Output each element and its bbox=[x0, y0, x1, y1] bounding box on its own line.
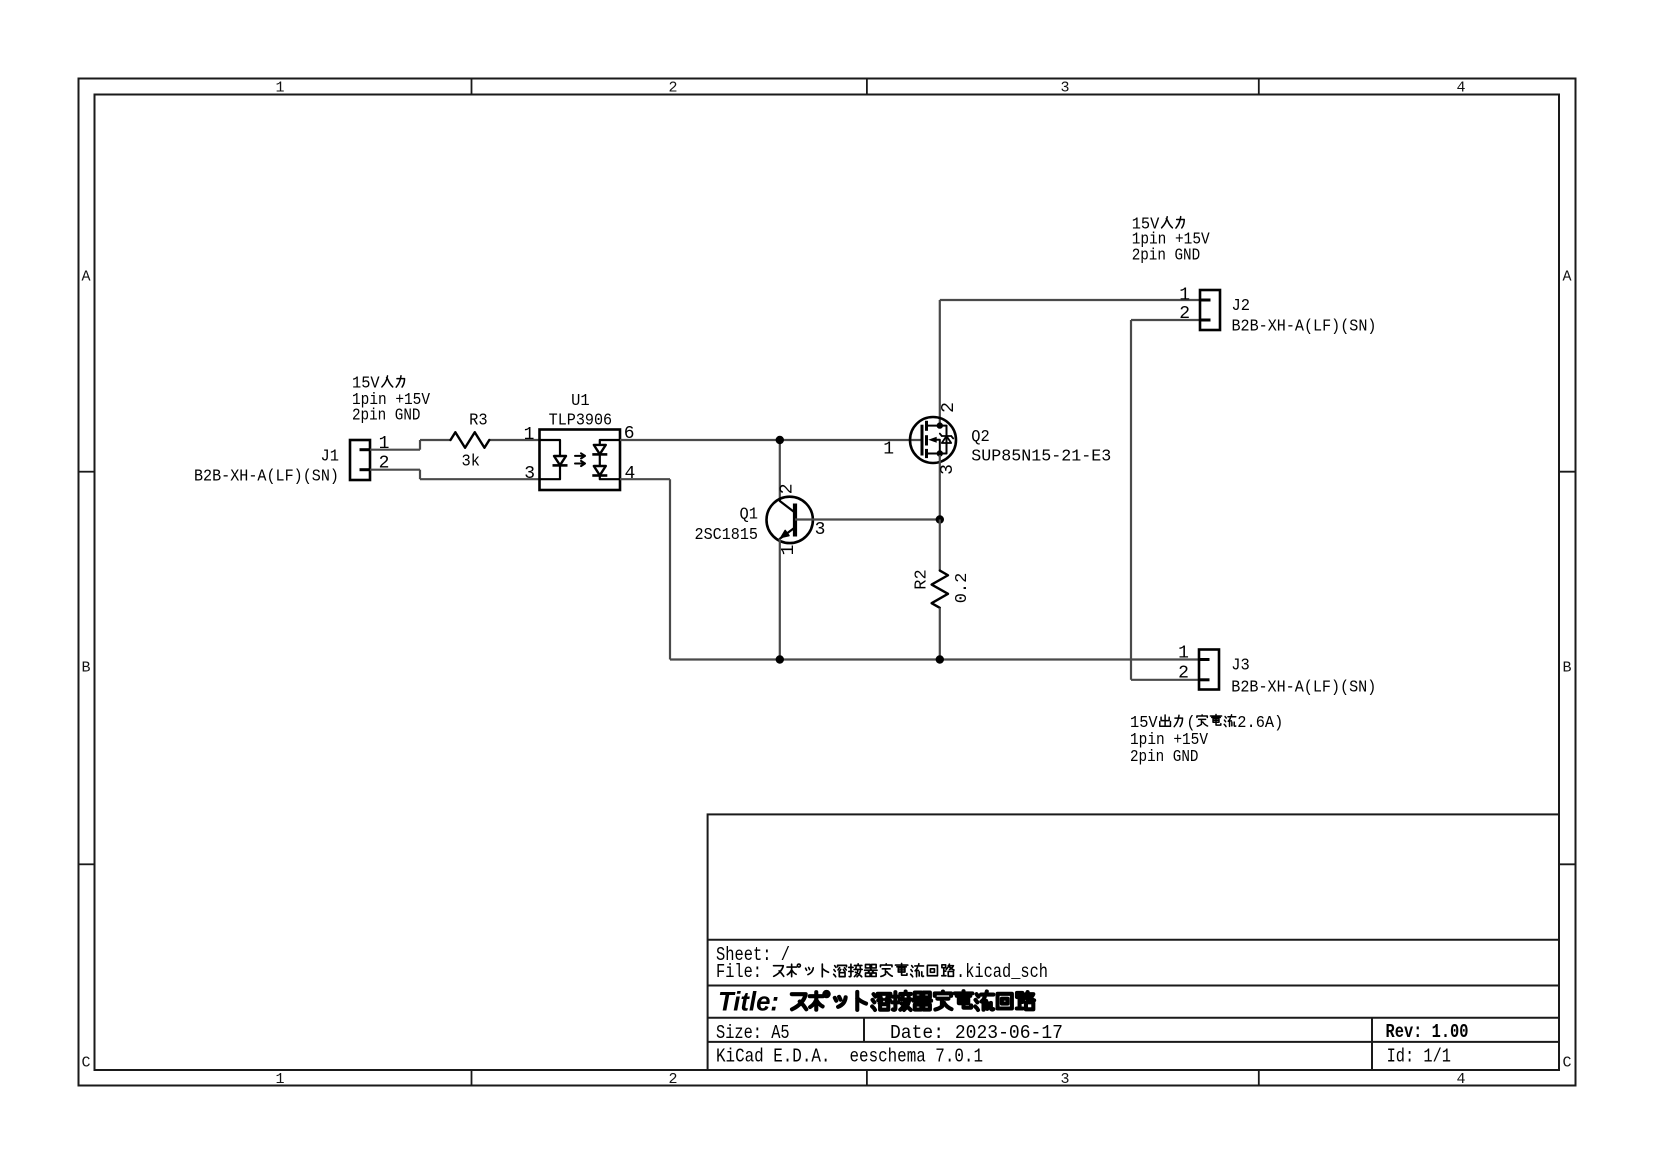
transistor Q1 bbox=[767, 497, 813, 543]
Q2 source connection + arrow bbox=[927, 453, 947, 455]
node junction R2 / bottom wire bbox=[936, 655, 944, 663]
J3 pin 2 stub bbox=[1199, 678, 1210, 681]
wire R2 to bottom bbox=[939, 608, 941, 660]
svg-text:0.2: 0.2 bbox=[953, 573, 972, 604]
svg-text:R2: R2 bbox=[913, 569, 932, 589]
svg-text:3: 3 bbox=[524, 464, 535, 484]
svg-text:4: 4 bbox=[1456, 1071, 1465, 1088]
J2 pin 1 stub bbox=[1200, 299, 1211, 302]
svg-text:C: C bbox=[1562, 1055, 1571, 1072]
svg-text:2pin GND: 2pin GND bbox=[1130, 748, 1199, 767]
frame column ticks top bbox=[471, 79, 473, 95]
wire Q2 source to node bbox=[939, 455, 941, 520]
Q2 channel dashes bbox=[925, 421, 928, 431]
frame row ticks right bbox=[1559, 471, 1576, 473]
svg-text:1: 1 bbox=[1178, 644, 1189, 664]
connector J1 bbox=[350, 440, 370, 480]
svg-text:3: 3 bbox=[815, 520, 826, 540]
wire J2 pin1 to Q2 drain bbox=[939, 300, 941, 424]
svg-text:3k: 3k bbox=[462, 452, 481, 471]
svg-text:Id: 1/1: Id: 1/1 bbox=[1387, 1046, 1451, 1068]
node junction Q1 emitter / bottom wire bbox=[776, 655, 784, 663]
svg-text:B: B bbox=[81, 659, 90, 676]
wire U1 pin6 to Q2 gate bbox=[620, 439, 922, 441]
wire J2 pin2 down to J3 pin2 bbox=[1131, 319, 1200, 321]
svg-text:4: 4 bbox=[624, 464, 635, 484]
U1 output photodiode stack bbox=[600, 440, 620, 445]
svg-text:1: 1 bbox=[779, 545, 799, 556]
svg-text:B2B-XH-A(LF)(SN): B2B-XH-A(LF)(SN) bbox=[1232, 318, 1377, 337]
wire R3 to U1 pin1 bbox=[489, 439, 539, 441]
svg-text:KiCad E.D.A. eeschema 7.0.1: KiCad E.D.A. eeschema 7.0.1 bbox=[716, 1046, 983, 1068]
svg-text:.kicad_sch: .kicad_sch bbox=[956, 961, 1048, 983]
svg-text:J1: J1 bbox=[321, 448, 340, 467]
svg-text:File:: File: bbox=[716, 961, 762, 983]
J3 pin 1 stub bbox=[1199, 658, 1210, 661]
wire Q1 base to R2 node bbox=[795, 518, 940, 520]
wire node to R2 bbox=[939, 520, 941, 571]
svg-text:2SC1815: 2SC1815 bbox=[695, 526, 759, 545]
svg-text:J3: J3 bbox=[1231, 657, 1250, 676]
frame column ticks bottom bbox=[471, 1070, 473, 1086]
svg-text:1: 1 bbox=[1179, 285, 1190, 305]
svg-text:2: 2 bbox=[1178, 664, 1189, 684]
U1 coupling arrows bbox=[575, 453, 585, 458]
svg-text:U1: U1 bbox=[571, 392, 590, 411]
svg-text:1: 1 bbox=[275, 1071, 284, 1088]
Q2 drain connection bbox=[927, 425, 947, 427]
svg-text:4: 4 bbox=[1456, 80, 1465, 97]
svg-text:2pin GND: 2pin GND bbox=[352, 407, 421, 426]
svg-text:Rev: 1.00: Rev: 1.00 bbox=[1386, 1021, 1469, 1043]
wire Q1 emitter down bbox=[779, 539, 781, 660]
svg-text:B: B bbox=[1562, 659, 1571, 676]
svg-text:B2B-XH-A(LF)(SN): B2B-XH-A(LF)(SN) bbox=[194, 467, 339, 486]
border frame inner bbox=[95, 95, 1560, 1071]
svg-text:J2: J2 bbox=[1232, 297, 1251, 316]
svg-text:A: A bbox=[1562, 269, 1571, 286]
connector J2 bbox=[1200, 290, 1220, 330]
title block column line rev/id bbox=[1371, 1018, 1373, 1070]
svg-text:2pin GND: 2pin GND bbox=[1132, 247, 1201, 266]
border frame outer bbox=[79, 79, 1576, 1086]
svg-text:2: 2 bbox=[778, 483, 798, 494]
svg-text:A: A bbox=[81, 269, 90, 286]
node junction Q1 base / Q2 source / R2 bbox=[936, 515, 944, 523]
svg-text:15V: 15V bbox=[1130, 714, 1158, 733]
node junction U1pin6/Q1 bbox=[776, 436, 784, 444]
wire U1 pin4 down and along bottom bbox=[620, 478, 670, 480]
wire Q2 drain to J2 pin1 bbox=[940, 299, 1200, 301]
svg-text:Title:: Title: bbox=[718, 987, 779, 1017]
resistor R2 bbox=[932, 571, 948, 608]
wire J1 pin2 to U1 pin3 bbox=[370, 469, 420, 471]
J2 pin 2 stub bbox=[1200, 319, 1211, 322]
svg-text:2: 2 bbox=[939, 402, 959, 413]
svg-text:B2B-XH-A(LF)(SN): B2B-XH-A(LF)(SN) bbox=[1231, 679, 1376, 698]
svg-text:R3: R3 bbox=[469, 411, 488, 430]
svg-text:6: 6 bbox=[624, 424, 635, 444]
svg-text:SUP85N15-21-E3: SUP85N15-21-E3 bbox=[971, 448, 1111, 467]
svg-text:Q2: Q2 bbox=[971, 428, 990, 447]
connector J3 bbox=[1199, 650, 1219, 690]
svg-text:TLP3906: TLP3906 bbox=[549, 412, 613, 431]
frame row ticks left bbox=[79, 471, 95, 473]
svg-text:Date: 2023-06-17: Date: 2023-06-17 bbox=[890, 1022, 1063, 1044]
svg-text:1: 1 bbox=[524, 425, 535, 445]
transistor Q2 bbox=[910, 417, 956, 463]
resistor R3 bbox=[451, 432, 490, 448]
title block column line size/date bbox=[863, 1018, 865, 1042]
svg-text:3: 3 bbox=[938, 464, 958, 475]
title block row lines bbox=[708, 939, 1559, 941]
svg-text:1: 1 bbox=[883, 440, 894, 460]
J1 pin 1 stub bbox=[360, 448, 371, 451]
svg-text:2: 2 bbox=[668, 80, 677, 97]
svg-text:2: 2 bbox=[668, 1071, 677, 1088]
Q2 gate bar bbox=[921, 425, 924, 456]
svg-text:Size: A5: Size: A5 bbox=[716, 1022, 790, 1044]
J1 pin 2 stub bbox=[360, 468, 371, 471]
svg-text:2: 2 bbox=[1179, 304, 1190, 324]
svg-text:Q1: Q1 bbox=[740, 506, 759, 525]
svg-text:(: ( bbox=[1186, 714, 1195, 733]
svg-text:3: 3 bbox=[1060, 1071, 1069, 1088]
svg-text:3: 3 bbox=[1060, 80, 1069, 97]
Q2 body diode bbox=[946, 426, 948, 454]
svg-text:2.6A): 2.6A) bbox=[1237, 714, 1283, 733]
U1 input LED bbox=[540, 440, 561, 456]
wire junction to Q1 collector bbox=[779, 440, 781, 498]
svg-text:C: C bbox=[81, 1055, 90, 1072]
op-amp U1 opto body bbox=[540, 430, 621, 491]
svg-text:1: 1 bbox=[275, 80, 284, 97]
wire J1 pin1 to R3 bbox=[370, 449, 420, 451]
title block outline bbox=[708, 814, 1559, 1070]
